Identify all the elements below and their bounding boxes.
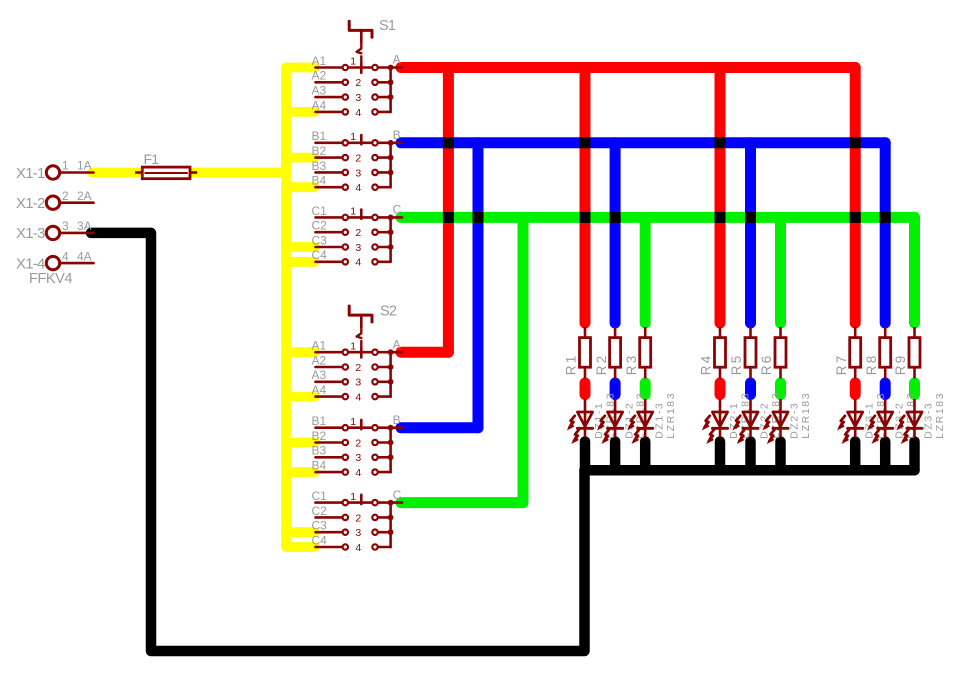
wire black: X1-3 pin to bottom-left corner: [91, 233, 585, 651]
svg-text:C4: C4: [312, 248, 328, 262]
wire yellow stub to contact S1 C4: [286, 257, 315, 267]
LED DZ2-3 (LZR183): [779, 399, 782, 438]
svg-text:DZ1-3: DZ1-3: [653, 402, 665, 439]
svg-text:2A: 2A: [77, 189, 92, 203]
wire yellow stub to contact S1 A1: [286, 63, 315, 73]
wire blue: segment R8 to LED: [880, 383, 891, 395]
svg-text:3: 3: [62, 219, 69, 233]
svg-text:2: 2: [355, 227, 361, 239]
LED DZ2-1 (LZR183): [719, 399, 722, 438]
wire blue: branch down to S2 output: [473, 143, 484, 428]
svg-text:B: B: [393, 413, 401, 427]
svg-text:C2: C2: [312, 219, 328, 233]
wire blue: segment R2 to LED: [610, 383, 621, 395]
svg-text:2: 2: [355, 77, 361, 89]
svg-text:B3: B3: [312, 159, 327, 173]
svg-text:3: 3: [355, 167, 361, 179]
wire yellow: X1-1 pin to fuse F1 and on to yellow bus: [92, 168, 286, 178]
wire black: LED DZ2-2 cathode to ground bus: [745, 442, 756, 471]
LED DZ1-1 (LZR183): [584, 399, 587, 438]
LED DZ1-2 (LZR183): [614, 399, 617, 438]
svg-text:4A: 4A: [77, 249, 92, 263]
svg-text:B3: B3: [312, 444, 327, 458]
switch S2 section C contact pins and wires: [316, 495, 403, 547]
svg-text:1: 1: [350, 131, 356, 143]
switch S2 section A pin numbers: [350, 340, 361, 403]
svg-text:4: 4: [355, 467, 361, 479]
svg-text:3: 3: [355, 92, 361, 104]
wire red: drop to resistor R4: [715, 68, 726, 324]
svg-text:B4: B4: [312, 174, 327, 188]
wire green: drop to resistor R9: [909, 217, 920, 323]
wire yellow stub to contact S1 C3: [286, 242, 315, 252]
svg-text:C: C: [393, 488, 402, 502]
wire red: drop to resistor R7: [850, 68, 861, 324]
svg-text:A2: A2: [312, 353, 327, 367]
resistor R2: [614, 327, 617, 338]
svg-text:FFKV4: FFKV4: [29, 271, 72, 287]
connector X1 pin labels: [16, 165, 45, 273]
svg-text:R9: R9: [893, 354, 908, 376]
wire blue: drop to resistor R5: [745, 143, 756, 323]
wire black: LED DZ3-3 cathode to ground bus: [909, 442, 920, 471]
svg-text:3: 3: [355, 377, 361, 389]
wire black: LED DZ3-2 cathode to ground bus: [880, 442, 891, 471]
wire yellow stub to contact S1 B2: [286, 153, 315, 163]
svg-text:A: A: [393, 337, 401, 351]
svg-text:DZ3-3: DZ3-3: [923, 402, 935, 439]
svg-text:C4: C4: [312, 533, 328, 547]
resistor R4: [719, 327, 722, 338]
wire yellow stub to contact S1 A4: [286, 107, 315, 117]
switch S1 section B contact pins and wires: [316, 135, 403, 187]
svg-text:LZR183: LZR183: [934, 392, 946, 439]
wire yellow stub to contact S2 B4: [286, 467, 315, 477]
svg-text:A4: A4: [312, 383, 327, 397]
wire red: S2 output horizontal: [401, 347, 448, 358]
switch S2 section B contact pins and wires: [316, 420, 403, 472]
switch S1 section C pin numbers: [350, 206, 361, 269]
svg-text:1: 1: [350, 206, 356, 218]
wire red: drop to resistor R1: [580, 68, 591, 324]
svg-text:1: 1: [62, 159, 69, 173]
wire black: LED DZ1-3 cathode to ground bus: [640, 442, 651, 471]
svg-text:R2: R2: [594, 354, 609, 376]
svg-text:R6: R6: [759, 354, 774, 376]
wire yellow stub to contact S2 C3: [286, 527, 315, 537]
switch S1 section A pin numbers: [350, 56, 361, 119]
svg-text:LZR183: LZR183: [665, 392, 677, 439]
wire yellow stub to contact S1 B4: [286, 182, 315, 192]
LED DZ1-3 (LZR183): [644, 399, 647, 438]
wire red: segment R4 to LED: [715, 383, 726, 395]
wire blue: S1 output horizontal run: [401, 137, 885, 148]
connector X1 pin numbers / net names 1A-4A: [62, 159, 92, 264]
svg-text:R7: R7: [834, 354, 849, 376]
wire yellow: vertical bus along switches: [281, 68, 291, 547]
switch S1 section B contact labels B1-B4: [312, 129, 327, 187]
connector pin X1-3: [60, 232, 94, 235]
switch S1 section C contact labels C1-C4: [312, 204, 328, 262]
svg-text:R8: R8: [864, 354, 879, 376]
svg-text:F1: F1: [144, 151, 160, 167]
svg-text:X1-4: X1-4: [16, 255, 45, 272]
LED DZ2-2 (LZR183): [749, 399, 752, 438]
resistor R6: [779, 327, 782, 338]
svg-text:DZ2-1: DZ2-1: [728, 402, 740, 439]
svg-text:DZ2-3: DZ2-3: [789, 402, 801, 439]
switch S1 section C contact pins and wires: [316, 210, 403, 262]
resistor R8: [884, 327, 887, 338]
connector pin X1-2: [60, 201, 94, 204]
svg-text:1: 1: [350, 340, 356, 352]
resistor R5: [749, 327, 752, 338]
wire blue: drop to resistor R2: [610, 143, 621, 323]
switch S2 section A contact labels A1-A4: [312, 339, 327, 397]
svg-text:X1-3: X1-3: [16, 225, 45, 242]
resistor R1: [584, 327, 587, 338]
svg-text:3: 3: [355, 527, 361, 539]
wire blue: segment R5 to LED: [745, 383, 756, 395]
svg-text:3: 3: [355, 452, 361, 464]
svg-text:B1: B1: [312, 414, 327, 428]
svg-text:A: A: [393, 53, 401, 67]
resistor R3: [644, 327, 647, 338]
svg-text:1: 1: [350, 416, 356, 428]
wire green: segment R6 to LED: [775, 383, 786, 395]
svg-text:S2: S2: [380, 304, 397, 320]
svg-text:A2: A2: [312, 69, 327, 83]
svg-text:B: B: [393, 128, 401, 142]
wire green: segment R9 to LED: [909, 383, 920, 395]
svg-text:C1: C1: [312, 489, 328, 503]
svg-text:DZ2-2: DZ2-2: [759, 402, 771, 439]
svg-text:2: 2: [62, 189, 69, 203]
wire red: branch down to S2 output: [443, 68, 454, 353]
wire blue: S2 output horizontal: [401, 422, 478, 433]
wire green: drop to resistor R3: [640, 217, 651, 323]
svg-text:4: 4: [355, 182, 361, 194]
svg-text:DZ3-1: DZ3-1: [863, 402, 875, 439]
svg-text:DZ1-1: DZ1-1: [593, 402, 605, 439]
svg-text:R3: R3: [624, 354, 639, 376]
svg-text:4: 4: [355, 542, 361, 554]
wire green: segment R3 to LED: [640, 383, 651, 395]
svg-text:1: 1: [350, 56, 356, 68]
svg-text:X1-1: X1-1: [16, 165, 45, 182]
wire black: LED DZ2-3 cathode to ground bus: [775, 442, 786, 471]
switch S1 actuator lever symbol: [349, 21, 372, 43]
wire yellow stub to contact S2 C4: [286, 542, 315, 552]
svg-text:S1: S1: [379, 18, 396, 34]
svg-text:A3: A3: [312, 368, 327, 382]
svg-text:4: 4: [355, 257, 361, 269]
svg-text:3A: 3A: [77, 219, 92, 233]
svg-text:C3: C3: [312, 519, 328, 533]
svg-text:2: 2: [355, 362, 361, 374]
switch S1 section B pin numbers: [350, 131, 361, 194]
wire yellow stub to contact S2 A4: [286, 392, 315, 402]
connector pin X1-4: [60, 262, 94, 265]
resistor R9: [913, 327, 916, 338]
switch S2 section C contact labels C1-C4: [312, 489, 328, 547]
LED DZ3-1 (LZR183): [854, 399, 857, 438]
svg-text:C2: C2: [312, 504, 328, 518]
svg-text:B2: B2: [312, 429, 327, 443]
switch S2 actuator lever symbol: [349, 306, 372, 328]
svg-text:A1: A1: [312, 54, 327, 68]
wire black: LED DZ3-1 cathode to ground bus: [850, 442, 861, 471]
switch S2 section B contact labels B1-B4: [312, 414, 327, 472]
wire black: LED DZ2-1 cathode to ground bus: [715, 442, 726, 471]
resistor R7: [854, 327, 857, 338]
wire red: segment R7 to LED: [850, 383, 861, 395]
wire green: branch down to S2 output: [518, 217, 529, 502]
switch S2 section B pin numbers: [350, 416, 361, 479]
switch S1 section A contact pins and wires: [316, 64, 403, 112]
svg-text:R4: R4: [699, 354, 714, 376]
svg-text:B4: B4: [312, 459, 327, 473]
connector pin X1-1: [60, 171, 94, 174]
wire green: drop to resistor R6: [775, 217, 786, 323]
svg-text:C3: C3: [312, 233, 328, 247]
svg-text:R1: R1: [564, 354, 579, 376]
svg-text:2: 2: [355, 437, 361, 449]
wire yellow stub to contact S2 A1: [286, 347, 315, 357]
svg-text:C: C: [393, 203, 402, 217]
wire blue: drop to resistor R8: [880, 143, 891, 323]
wire green: S2 output horizontal: [401, 497, 523, 508]
LED DZ3-3 (LZR183): [913, 399, 916, 438]
wire green: S1 output horizontal run: [401, 212, 915, 223]
switch S1 section A contact labels A1-A4: [312, 54, 327, 112]
wire red: segment R1 to LED: [580, 383, 591, 395]
switch S2 actuator dashed link: [357, 329, 362, 347]
wire yellow stub to contact S2 B2: [286, 438, 315, 448]
svg-text:X1-2: X1-2: [16, 195, 45, 212]
svg-text:B2: B2: [312, 144, 327, 158]
svg-text:A3: A3: [312, 84, 327, 98]
svg-text:4: 4: [355, 392, 361, 404]
svg-text:LZR183: LZR183: [800, 392, 812, 439]
svg-text:1A: 1A: [77, 159, 92, 173]
svg-text:DZ1-2: DZ1-2: [623, 402, 635, 439]
svg-text:4: 4: [355, 107, 361, 119]
svg-text:R5: R5: [729, 354, 744, 376]
svg-text:2: 2: [355, 512, 361, 524]
switch S2 section A contact pins and wires: [316, 348, 403, 396]
svg-text:1: 1: [350, 491, 356, 503]
LED DZ3-2 (LZR183): [884, 399, 887, 438]
switch S2 section C pin numbers: [350, 491, 361, 554]
svg-text:C1: C1: [312, 204, 328, 218]
svg-text:B1: B1: [312, 129, 327, 143]
wire black: ground bus under LEDs: [585, 465, 915, 476]
svg-text:4: 4: [62, 249, 69, 263]
wire black: LED DZ1-1 cathode to ground bus: [580, 442, 591, 471]
svg-text:2: 2: [355, 153, 361, 165]
svg-text:A1: A1: [312, 339, 327, 353]
wire red: S1 output horizontal run: [401, 62, 855, 73]
wire black: LED DZ1-2 cathode to ground bus: [610, 442, 621, 471]
switch S1 actuator dashed link: [357, 45, 362, 63]
svg-text:3: 3: [355, 242, 361, 254]
wire crossing squares (vertical nets over horizontal nets): [443, 137, 891, 223]
fuse F1: [135, 171, 142, 174]
svg-text:A4: A4: [312, 98, 327, 112]
